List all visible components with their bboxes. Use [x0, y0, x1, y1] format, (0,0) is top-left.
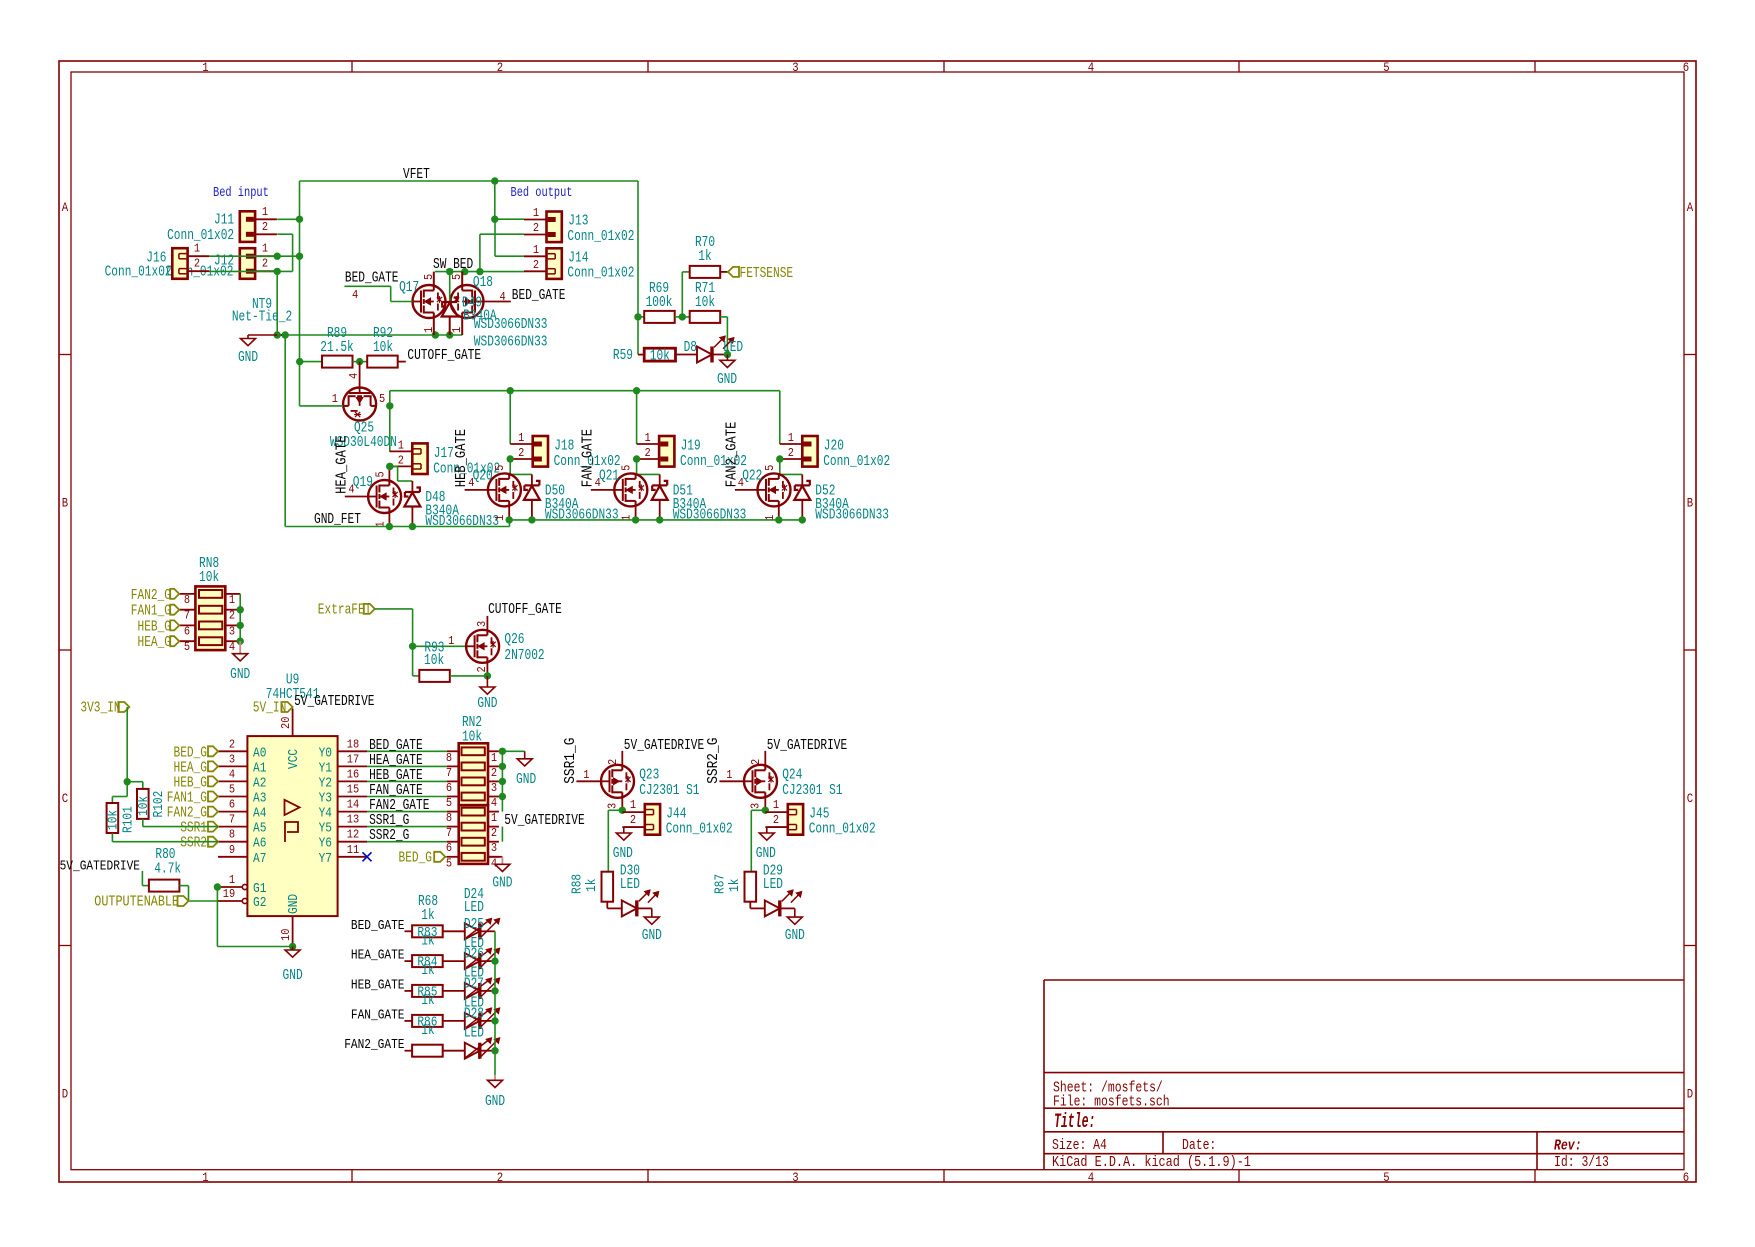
ground GND below RN8 — [239, 641, 241, 654]
wire GND_FET source row — [285, 334, 462, 336]
svg-text:1: 1 — [491, 751, 497, 765]
svg-text:2: 2 — [398, 453, 404, 467]
diode D8 LED — [676, 354, 698, 356]
svg-text:A: A — [62, 201, 69, 215]
svg-text:1k: 1k — [727, 879, 743, 892]
pin U9 G1 — [218, 886, 242, 888]
svg-text:GND: GND — [230, 666, 250, 683]
svg-text:16: 16 — [347, 767, 359, 781]
pin RN2 left 5 — [447, 856, 459, 858]
hier label FAN2_G — [170, 589, 179, 599]
svg-text:1: 1 — [726, 768, 732, 782]
junction LED row 3 — [491, 987, 498, 994]
junction VFET to J13 — [491, 177, 498, 184]
connector J44 — [622, 811, 645, 813]
svg-text:WSD3066DN33: WSD3066DN33 — [425, 513, 499, 530]
svg-text:1: 1 — [262, 205, 268, 219]
junction RN8 pin4 — [237, 638, 244, 645]
resistor network RN8 — [195, 586, 225, 650]
junction R70 R71 — [679, 313, 686, 320]
wire J20 pin2 to fet drain — [779, 459, 781, 474]
svg-text:SSR2_G: SSR2_G — [705, 738, 722, 784]
svg-text:Net-Tie_2: Net-Tie_2 — [232, 309, 292, 326]
svg-text:WSD3066DN33: WSD3066DN33 — [545, 506, 619, 523]
junction Q22 source — [775, 516, 782, 523]
svg-text:BED_G: BED_G — [399, 850, 433, 867]
wire D29 to GND — [780, 907, 795, 909]
svg-text:A4: A4 — [253, 806, 266, 822]
svg-text:5V_GATEDRIVE: 5V_GATEDRIVE — [504, 812, 584, 829]
junction R69 left — [634, 313, 641, 320]
transistor Q19 — [368, 480, 401, 513]
svg-text:8: 8 — [446, 811, 452, 825]
junction SW_BED D49 — [446, 268, 453, 275]
wire J19 pin2 to fet drain — [636, 459, 638, 474]
ground GND at J45 pin2 — [767, 826, 788, 828]
svg-text:1: 1 — [229, 873, 235, 887]
pin RN2 right 2 — [488, 826, 499, 828]
pin U9 Y5 — [338, 826, 367, 828]
svg-text:2: 2 — [606, 759, 620, 765]
resistor R71 — [690, 311, 721, 323]
svg-text:7: 7 — [446, 826, 452, 840]
svg-text:GND: GND — [492, 875, 512, 892]
diode D27 — [465, 983, 480, 999]
ground GND below D30 — [651, 908, 653, 917]
wire Q22 gate — [735, 489, 758, 491]
svg-text:GND: GND — [516, 771, 536, 788]
wire to R102 — [127, 781, 143, 783]
svg-text:GND: GND — [613, 845, 633, 862]
svg-text:3: 3 — [792, 61, 798, 75]
pin RN2 left 7 — [447, 826, 459, 828]
svg-text:1: 1 — [202, 61, 208, 75]
wire J12 J16 pin2 row — [210, 270, 293, 272]
transistor Q20 — [488, 473, 521, 506]
svg-text:1k: 1k — [421, 1022, 434, 1039]
hier label FAN2_G — [208, 807, 218, 817]
connector J12 — [240, 248, 255, 279]
wire net FAN2_GATE — [367, 811, 447, 813]
wire Q20 source to rail — [508, 506, 510, 520]
resistor R69 — [638, 316, 644, 318]
pin U9 A2 — [218, 780, 247, 782]
junction J18 pin2 — [507, 455, 514, 462]
svg-text:4: 4 — [1088, 1171, 1094, 1185]
junction LED row 4 — [491, 1017, 498, 1024]
svg-text:2N7002: 2N7002 — [504, 647, 544, 664]
pin Q18 source — [461, 318, 463, 335]
wire Q23 to R88 — [608, 809, 622, 811]
junction Q20 source — [506, 516, 513, 523]
wire R89 left — [300, 361, 323, 363]
svg-text:4: 4 — [491, 856, 497, 870]
ground GND below D8 — [726, 355, 728, 361]
svg-text:File: mosfets.sch: File: mosfets.sch — [1053, 1095, 1170, 1111]
svg-text:4: 4 — [229, 767, 235, 781]
wire G1 drop — [216, 887, 218, 947]
pin Q25 gate — [359, 362, 361, 388]
svg-text:Bed input: Bed input — [213, 185, 269, 201]
ground GND below LED column — [494, 1075, 496, 1080]
pin U9 Y6 — [338, 841, 367, 843]
svg-text:Y4: Y4 — [319, 806, 332, 822]
pin U9 G2 — [218, 900, 242, 902]
svg-text:VFET: VFET — [403, 166, 430, 183]
svg-text:1: 1 — [773, 798, 779, 812]
wire Q25 gate in — [300, 405, 344, 407]
pin U9 A4 — [218, 811, 247, 813]
svg-text:WSD3066DN33: WSD3066DN33 — [474, 316, 548, 333]
wire RN2 lower 5V — [501, 827, 503, 842]
junction Q19 source — [386, 523, 393, 530]
wire net SSR1_G — [367, 826, 447, 828]
svg-text:Conn_01x02: Conn_01x02 — [823, 453, 890, 470]
junction Q24 source — [762, 807, 769, 814]
junction J17 pin2 — [386, 463, 393, 470]
svg-text:15: 15 — [347, 783, 359, 797]
ic U9 tristate glyph — [285, 822, 298, 842]
junction J17 pin2 — [386, 463, 393, 470]
junction NT9 right — [282, 331, 289, 338]
svg-text:5: 5 — [446, 796, 452, 810]
svg-text:FAN1_G: FAN1_G — [131, 603, 171, 620]
resistor R led5 — [405, 1050, 413, 1052]
wire net SSR2_G — [367, 841, 447, 843]
svg-text:5: 5 — [450, 274, 464, 280]
pin RN8 left 6 — [179, 624, 195, 626]
svg-text:5: 5 — [493, 465, 507, 471]
wire GND_FET rail step — [509, 520, 511, 527]
connector J45 — [765, 811, 788, 813]
svg-text:WSD3066DN33: WSD3066DN33 — [815, 506, 889, 523]
pin RN8 right 2 — [225, 609, 240, 611]
connector J11 — [240, 211, 255, 242]
wire R80 left — [141, 871, 143, 886]
hier label FETSENSE — [728, 267, 739, 277]
connector J19 — [637, 443, 660, 445]
wire J14 pin1 riser — [494, 219, 496, 256]
svg-text:C: C — [1687, 792, 1693, 806]
svg-text:5: 5 — [379, 392, 385, 406]
wire R93 to Q26 source — [450, 675, 488, 677]
svg-text:5V_GATEDRIVE: 5V_GATEDRIVE — [624, 737, 704, 754]
resistor R102 — [137, 789, 149, 819]
svg-text:6: 6 — [446, 781, 452, 795]
svg-text:B: B — [62, 497, 69, 511]
wire Q25 drain riser — [389, 391, 391, 406]
pin RN8 right 1 — [225, 593, 240, 595]
ic U9 74HCT541 — [247, 736, 337, 916]
svg-text:D8: D8 — [684, 339, 697, 356]
pin U9 GND 10 — [292, 916, 294, 946]
svg-text:1: 1 — [398, 438, 404, 452]
svg-text:4: 4 — [347, 373, 361, 379]
svg-text:G2: G2 — [253, 895, 266, 911]
junction J12 pin1 a — [274, 253, 281, 260]
svg-text:1: 1 — [583, 768, 589, 782]
svg-text:10k: 10k — [462, 729, 482, 746]
svg-text:D: D — [1687, 1088, 1693, 1102]
pin Q26 drain — [486, 616, 488, 630]
svg-text:1: 1 — [493, 515, 507, 521]
svg-text:HEB_GATE: HEB_GATE — [351, 977, 405, 993]
wire R101 bottom — [111, 833, 113, 842]
wire J13 pin2 — [480, 233, 524, 235]
pin Q24 source down — [764, 798, 766, 811]
svg-text:Y1: Y1 — [319, 760, 332, 776]
svg-text:CUTOFF_GATE: CUTOFF_GATE — [407, 347, 481, 364]
wire net BED_GATE — [367, 750, 447, 752]
resistor RN2 element 5 — [462, 808, 485, 816]
svg-text:2: 2 — [533, 258, 539, 272]
resistor RN2 element 2 — [462, 763, 485, 771]
svg-text:CJ2301 S1: CJ2301 S1 — [782, 782, 842, 799]
svg-text:6: 6 — [1683, 1171, 1689, 1185]
wire Q21 gate — [591, 489, 615, 491]
junction J11 pin1 — [296, 216, 303, 223]
wire J11 pin2 bend — [277, 233, 292, 235]
svg-text:1: 1 — [630, 798, 636, 812]
resistor RN2 element 4 — [462, 793, 485, 801]
svg-text:5: 5 — [184, 640, 190, 654]
svg-text:8: 8 — [184, 593, 190, 607]
transistor Q25 — [343, 388, 376, 421]
svg-text:GND: GND — [283, 967, 303, 984]
resistor R93 — [412, 646, 414, 676]
wire R70 to FETSENSE — [720, 271, 728, 273]
resistor R83 — [405, 930, 413, 932]
svg-text:2: 2 — [749, 759, 763, 765]
svg-text:D25: D25 — [464, 916, 484, 933]
diode D30 LED — [622, 900, 637, 916]
svg-text:5: 5 — [446, 856, 452, 870]
transistor Q22 — [758, 473, 791, 506]
hier label BED_G — [208, 746, 218, 756]
resistor RN2 element 1 — [462, 747, 485, 755]
svg-text:WSD3066DN33: WSD3066DN33 — [673, 506, 747, 523]
junction D48 anode — [409, 523, 416, 530]
svg-text:1k: 1k — [421, 992, 434, 1009]
svg-text:BED_GATE: BED_GATE — [345, 270, 399, 287]
diode D29 LED — [765, 900, 780, 916]
svg-text:8: 8 — [446, 751, 452, 765]
svg-text:11: 11 — [347, 843, 359, 857]
junction rail J18 — [507, 387, 514, 394]
svg-text:A6: A6 — [253, 836, 266, 852]
wire R87 to D29 — [749, 902, 751, 909]
hier label FAN1_G — [170, 605, 179, 615]
transistor Q26 — [466, 630, 499, 663]
junction SW_BED J14 — [476, 268, 483, 275]
svg-text:2: 2 — [788, 446, 794, 460]
pin U9 Y7 — [338, 856, 367, 858]
svg-text:A: A — [1687, 201, 1694, 215]
svg-text:4.7k: 4.7k — [154, 861, 181, 878]
svg-text:Y6: Y6 — [319, 836, 332, 852]
wire Q24 gate — [719, 780, 744, 782]
svg-text:2: 2 — [497, 61, 503, 75]
ground GND below U9 — [292, 947, 294, 951]
wire rail drop J17 — [389, 406, 391, 452]
resistor RN2 element 6 — [462, 823, 485, 831]
pin U9 Y2 — [338, 780, 367, 782]
ground GND below D29 — [794, 908, 796, 917]
wire GND_FET left drop — [284, 335, 286, 527]
svg-text:A3: A3 — [253, 791, 266, 807]
pin Q24 drain up — [764, 751, 766, 765]
svg-text:GND: GND — [717, 371, 737, 388]
svg-text:2: 2 — [518, 446, 524, 460]
wire Q18 gate to BED_GATE right — [484, 301, 511, 303]
connector J14 — [524, 255, 547, 257]
wire R70 drop — [681, 272, 683, 317]
junction rail J19 — [633, 387, 640, 394]
wire rail drop J19 — [636, 391, 638, 444]
wire VFET left vertical — [299, 181, 301, 406]
transistor Q17 — [413, 285, 446, 318]
svg-text:1k: 1k — [584, 879, 600, 892]
svg-text:2: 2 — [229, 737, 235, 751]
junction J12 pin1 b — [296, 253, 303, 260]
svg-text:100k: 100k — [646, 294, 673, 311]
junction RN8 pin3 — [237, 622, 244, 629]
svg-text:Conn_01x02: Conn_01x02 — [105, 264, 172, 281]
pin RN2 right 1 — [488, 750, 499, 752]
pin RN8 right 4 — [225, 640, 240, 642]
svg-text:BED_GATE: BED_GATE — [512, 287, 566, 304]
wire net FAN_GATE — [367, 796, 447, 798]
title block — [1044, 979, 1684, 981]
svg-text:14: 14 — [347, 798, 359, 812]
connector J16 — [172, 248, 187, 279]
svg-text:A2: A2 — [253, 775, 266, 791]
pin RN2 right 3 — [488, 780, 499, 782]
svg-text:2: 2 — [630, 813, 636, 827]
junction RN2 c1 — [499, 748, 506, 755]
wire SW_BED row — [435, 271, 524, 273]
svg-text:GND: GND — [286, 894, 302, 914]
svg-text:Y7: Y7 — [319, 851, 332, 867]
ground GND at RN2 upper — [524, 751, 526, 759]
wire R69 R71 mid — [675, 316, 690, 318]
wire net HEA_GATE — [367, 765, 447, 767]
wire ExtraFET to R93 — [375, 608, 413, 610]
pin U9 A7 — [218, 856, 247, 858]
pin RN2 left 7 — [447, 765, 459, 767]
svg-text:Date:: Date: — [1182, 1138, 1216, 1154]
svg-text:HEA_G: HEA_G — [138, 634, 172, 651]
svg-text:8: 8 — [229, 828, 235, 842]
wire Q20 gate — [465, 489, 488, 491]
svg-text:Conn_01x02: Conn_01x02 — [567, 228, 634, 245]
svg-text:Y2: Y2 — [319, 775, 332, 791]
svg-text:3: 3 — [491, 841, 497, 855]
svg-text:1k: 1k — [421, 932, 434, 949]
pin RN2 left 6 — [447, 841, 459, 843]
wire R88 to D30 — [606, 902, 608, 909]
wire D30 to GND — [637, 907, 652, 909]
resistor R87 — [745, 872, 757, 902]
pin Q18 drain — [461, 272, 463, 285]
svg-text:2: 2 — [773, 813, 779, 827]
wire J11 pin1 — [277, 218, 299, 220]
svg-text:3: 3 — [792, 1171, 798, 1185]
resistor network RN2 upper — [459, 743, 488, 805]
pin Q17 drain — [433, 272, 435, 285]
svg-text:6: 6 — [1683, 61, 1689, 75]
wire R92 right — [398, 361, 406, 363]
connector J18 — [510, 443, 533, 445]
transistor Q23 — [601, 765, 634, 798]
pin RN8 right 3 — [225, 624, 240, 626]
resistor R84 — [405, 960, 413, 962]
svg-text:5: 5 — [422, 274, 436, 280]
svg-text:Q20: Q20 — [473, 467, 493, 484]
svg-text:Bed output: Bed output — [511, 185, 573, 201]
svg-text:Q17: Q17 — [399, 279, 419, 296]
resistor R89 — [322, 356, 353, 368]
wire RN2 to GND — [502, 750, 524, 752]
svg-text:Conn_01x02: Conn_01x02 — [167, 227, 234, 244]
svg-text:FAN2_GATE: FAN2_GATE — [723, 422, 740, 488]
svg-text:4: 4 — [229, 640, 235, 654]
svg-text:5: 5 — [763, 465, 777, 471]
resistor network RN2 lower — [459, 805, 488, 864]
wire RN8 commons — [239, 594, 241, 641]
svg-text:KiCad E.D.A. kicad (5.1.9)-1: KiCad E.D.A. kicad (5.1.9)-1 — [1052, 1155, 1251, 1171]
wire VFET drop to J13 — [494, 181, 496, 219]
svg-text:21.5k: 21.5k — [320, 339, 354, 356]
svg-text:1: 1 — [450, 327, 464, 333]
svg-text:LED: LED — [464, 1024, 484, 1041]
svg-text:SSR2_G: SSR2_G — [369, 827, 409, 844]
svg-text:5: 5 — [229, 783, 235, 797]
wire Q19 source to rail — [388, 513, 390, 527]
svg-text:3: 3 — [475, 621, 489, 627]
svg-text:A5: A5 — [253, 821, 266, 837]
svg-text:1: 1 — [518, 431, 524, 445]
wire net HEB_GATE — [367, 780, 447, 782]
svg-text:4: 4 — [352, 288, 358, 302]
wire R89 R92 mid — [353, 361, 368, 363]
ground GND below Q26 — [486, 676, 488, 687]
svg-text:WSD3066DN33: WSD3066DN33 — [474, 334, 548, 351]
svg-text:10k: 10k — [650, 348, 670, 365]
svg-text:D: D — [62, 1088, 68, 1102]
connector J13 — [524, 219, 547, 221]
wire R71 to D8 — [720, 316, 727, 318]
ground GND at J44 pin2 — [624, 826, 645, 828]
junction RN8 pin2 — [237, 606, 244, 613]
svg-text:4: 4 — [491, 796, 497, 810]
pin U9 Y4 — [338, 811, 367, 813]
wire Q24 to R87 — [751, 809, 765, 811]
diode D26 — [465, 953, 480, 969]
svg-text:5: 5 — [1383, 61, 1389, 75]
wire Q19 gate — [345, 496, 368, 498]
pin U9 A1 — [218, 765, 247, 767]
svg-text:SSR2: SSR2 — [180, 835, 207, 852]
svg-text:1: 1 — [491, 811, 497, 825]
svg-text:HEA_GATE: HEA_GATE — [333, 436, 350, 494]
hier label HEA_G — [208, 761, 218, 771]
svg-text:FAN_GATE: FAN_GATE — [579, 429, 596, 487]
wire U9 GND row — [217, 946, 292, 948]
wire R80 right — [179, 885, 188, 887]
junction D49 anode — [446, 331, 453, 338]
hier label FAN1_G — [208, 792, 218, 802]
